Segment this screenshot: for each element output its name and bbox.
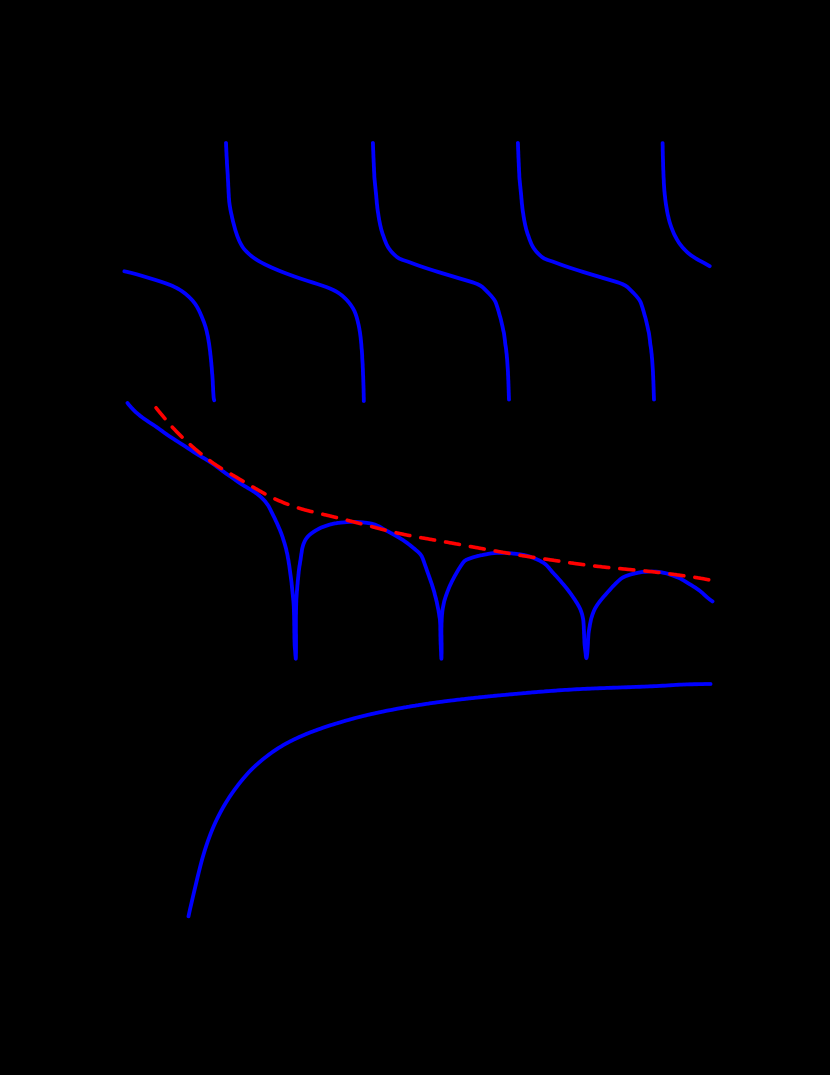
middle panel magnitude curve with cusps <box>128 403 713 659</box>
top panel phase branch 1 <box>226 143 364 401</box>
bottom panel saturating curve <box>189 684 711 916</box>
top panel phase branch 4 partial <box>663 143 710 266</box>
top panel phase branch left partial <box>124 271 214 400</box>
top panel phase branch 3 <box>518 143 654 400</box>
top panel phase branch 2 <box>373 143 509 400</box>
red dashed envelope <box>156 408 709 580</box>
